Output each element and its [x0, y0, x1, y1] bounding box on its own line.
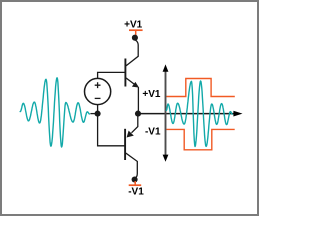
- transistor Q1 NPN base bar: [124, 59, 126, 87]
- border frame: [1, 1, 258, 215]
- svg-text:-V1: -V1: [145, 127, 161, 138]
- graph y-axis: [165, 69, 167, 157]
- node top supply dot: [132, 35, 138, 41]
- transistor Q2 collector: [126, 153, 138, 178]
- plus sign: [95, 82, 101, 88]
- x-axis arrowhead: [233, 111, 242, 117]
- wire Q1 emitter to output node: [137, 87, 139, 113]
- transistor Q1 collector: [126, 40, 138, 66]
- svg-text:-V1: -V1: [128, 187, 144, 198]
- wire source bottom to junction: [97, 105, 99, 114]
- source V1 circle: [85, 78, 111, 104]
- +V1 supply top symbol: [129, 29, 143, 31]
- rail -V1 stepped limit: [167, 129, 235, 149]
- svg-text:+V1: +V1: [124, 20, 143, 31]
- minus sign: [95, 97, 101, 99]
- wire input stub: [90, 113, 96, 115]
- y-axis bottom arrowhead: [163, 155, 169, 162]
- node output junction: [135, 111, 141, 117]
- transistor Q1 emitter: [126, 78, 134, 84]
- Q1 emitter arrowhead: [132, 82, 139, 88]
- rail +V1 stepped limit: [167, 79, 235, 97]
- node bottom supply dot: [132, 176, 138, 182]
- wire source top to NPN base: [98, 72, 126, 78]
- transistor Q2 PNP base bar: [124, 129, 126, 160]
- Q2 emitter arrowhead: [127, 131, 134, 138]
- -V1 supply bottom symbol: [134, 181, 136, 185]
- node input junction: [95, 111, 101, 117]
- input signal wave: [20, 78, 89, 147]
- y-axis top arrowhead: [163, 64, 169, 71]
- svg-text:+V1: +V1: [142, 89, 161, 100]
- transistor Q2 PNP emitter: [132, 114, 138, 133]
- wire output to graph axis: [138, 113, 234, 115]
- output signal wave: [166, 81, 232, 147]
- wire junction to PNP base: [98, 114, 126, 146]
